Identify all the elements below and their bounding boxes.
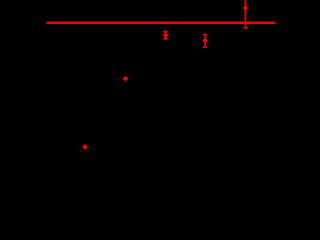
data point 3 (diamond marker)	[163, 33, 167, 37]
data point 5 (diamond marker)	[243, 6, 247, 10]
data point 1 (diamond marker)	[83, 145, 87, 149]
reference line (horizontal asymptote)	[47, 22, 276, 25]
data point 2 (diamond marker)	[124, 77, 128, 81]
error bar of point 4	[203, 35, 207, 48]
error bar of point 3	[163, 32, 167, 39]
data point 4 (diamond marker)	[203, 38, 207, 42]
error bar of point 5 (top clipped by image edge)	[243, 0, 248, 28]
